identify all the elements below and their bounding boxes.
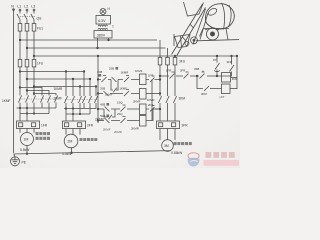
svg-text:T: T	[112, 25, 114, 29]
svg-text:2FR: 2FR	[180, 69, 185, 73]
svg-text:2FR: 2FR	[148, 103, 153, 107]
wire L3 top	[33, 11, 35, 14]
mixer jockey roller	[185, 42, 189, 46]
svg-text:3FR: 3FR	[227, 60, 232, 64]
watermark pink bar	[204, 160, 240, 166]
ground PE symbol	[14, 154, 15, 157]
PE bus wire	[14, 151, 171, 154]
svg-text:◇KT: ◇KT	[219, 95, 225, 99]
time relay KT NC contact	[214, 56, 220, 76]
fuse 3FU pole1	[159, 40, 161, 58]
fuse 1FU pole3	[32, 60, 36, 67]
interlock 1KMR NC	[124, 76, 129, 83]
coil 1KMF	[140, 74, 147, 85]
svg-text:6.3V: 6.3V	[98, 19, 106, 23]
transformer secondary box 6.3V	[102, 15, 104, 16]
junction bus2/L2	[26, 47, 28, 49]
wire L2 top	[26, 11, 28, 14]
fuse 1FU pole2	[25, 60, 29, 67]
terminal N	[13, 9, 15, 11]
bus line 1 (y40)	[20, 39, 157, 41]
mixer rear wheel	[207, 28, 219, 40]
wire transformer leg right	[108, 38, 110, 40]
svg-text:2KMR: 2KMR	[114, 130, 122, 134]
svg-text:QS: QS	[37, 17, 43, 21]
svg-text:2KMF: 2KMF	[103, 128, 111, 132]
fan bank1 phase3	[34, 94, 56, 96]
fuse 1FU pole1	[18, 60, 22, 67]
bus line 2 (y48)	[27, 47, 166, 49]
svg-text:3FR: 3FR	[182, 124, 189, 128]
mixer hoist track	[172, 4, 206, 56]
merge bus bank1 lower	[20, 103, 49, 114]
svg-text:3SB: 3SB	[100, 87, 105, 91]
svg-text:2M: 2M	[67, 140, 72, 144]
mixer chassis	[200, 28, 230, 40]
mixer front wheel	[191, 37, 198, 44]
mixer drum band	[222, 3, 232, 30]
thermal relay 3FR box	[157, 121, 180, 129]
fuse FU1 pole3	[32, 24, 36, 32]
switch QS pole 2	[24, 14, 27, 24]
svg-text:1KMF: 1KMF	[2, 99, 11, 103]
wire L1 top	[19, 11, 21, 14]
wire coil KT to right rail	[230, 88, 237, 90]
wire L2 mid	[26, 31, 28, 59]
svg-text:L1: L1	[17, 4, 21, 8]
wire L1 lower	[19, 67, 21, 96]
switch QS link dashed	[20, 15, 35, 17]
lamp H	[100, 9, 106, 15]
watermark logo red arc	[188, 153, 200, 167]
switch QS pole 1	[17, 14, 20, 24]
coil 3KM	[222, 73, 231, 83]
svg-text:2SQ: 2SQ	[117, 112, 123, 116]
mixer hopper	[174, 34, 190, 48]
wire transformer leg left	[97, 38, 99, 48]
thermal NC 1FR in series	[170, 72, 175, 79]
wire coil2 right	[146, 93, 160, 95]
contactor 1KMF contacts	[18, 96, 35, 103]
svg-text:1FU: 1FU	[37, 62, 44, 66]
button 1SB stop	[102, 76, 107, 83]
svg-text:1KMF: 1KMF	[135, 69, 143, 73]
control wire row4	[98, 120, 140, 122]
svg-text:L2: L2	[24, 4, 28, 8]
svg-text:1KMR: 1KMR	[121, 71, 129, 75]
pump control wire y76	[160, 75, 222, 77]
contactor 1KMR contacts	[40, 96, 57, 103]
right rail	[236, 56, 238, 89]
svg-text:4SB: 4SB	[100, 103, 105, 107]
wire 2KMF col2	[72, 79, 74, 96]
mixer illustration ground line	[196, 40, 239, 41]
svg-text:2KMF: 2KMF	[133, 100, 141, 104]
junction bus3/L3	[33, 55, 35, 57]
svg-text:5SB: 5SB	[100, 114, 105, 118]
svg-text:3FU: 3FU	[179, 60, 186, 64]
mixer drum opening	[207, 7, 218, 17]
transformer primary box 380V	[94, 31, 112, 39]
wire motor2M to PE bus	[71, 148, 73, 153]
contactor 3KM contacts	[158, 96, 176, 103]
junction rail2	[26, 78, 28, 80]
seal branch 2KMF	[104, 109, 115, 119]
bus line 3 (y56)	[34, 55, 237, 57]
svg-text:2KMF: 2KMF	[54, 97, 63, 101]
wire 1M phase drops	[20, 103, 34, 122]
limit switch 2SQ	[121, 117, 126, 124]
button 3SB stop pump	[200, 71, 205, 79]
fan bank1 phase1	[20, 88, 42, 96]
contactor 1KM link dashed	[19, 98, 57, 100]
control wire row1	[97, 79, 99, 81]
terminal L2	[26, 9, 28, 11]
distribution rail 3	[34, 86, 96, 88]
svg-text:1KMR: 1KMR	[54, 87, 64, 91]
svg-text:3KM: 3KM	[179, 97, 186, 101]
wire L2 lower	[26, 67, 28, 96]
motor 3M note (CJK blob)	[174, 142, 192, 145]
svg-text:1M: 1M	[23, 138, 28, 142]
svg-text:0.55kW: 0.55kW	[171, 151, 183, 155]
interlock chain vertical	[151, 80, 153, 121]
contactor 2KMR contacts	[82, 96, 97, 103]
wire 2KMF col1	[65, 72, 67, 97]
control wire row3	[98, 108, 140, 110]
button 3SB reverse	[104, 91, 109, 96]
distribution rail 2	[27, 78, 90, 80]
coil 2KMR	[140, 116, 147, 127]
svg-text:2KMR: 2KMR	[131, 127, 139, 131]
button 2SB start	[112, 77, 117, 82]
svg-text:5.5kW: 5.5kW	[20, 148, 30, 152]
coil KT	[222, 84, 231, 94]
seal branch 1KMF	[111, 80, 118, 93]
svg-text:1FR: 1FR	[166, 69, 171, 73]
fuse 3FU pole2	[167, 48, 169, 58]
wire motor1M to PE bus	[26, 146, 28, 154]
control wire row2	[98, 93, 140, 95]
watermark logo blue swirl	[188, 158, 200, 167]
wire coil4 right	[146, 109, 160, 121]
fuse FU1 pole1	[18, 24, 22, 32]
mixer drum	[205, 4, 234, 29]
svg-text:1FR: 1FR	[41, 124, 48, 128]
junction rail1	[19, 71, 21, 73]
svg-text:2FR: 2FR	[87, 124, 94, 128]
merge bus bank1 upper	[17, 103, 57, 109]
transformer T windings	[98, 25, 108, 26]
wire L3 mid	[33, 31, 35, 59]
motor 1M	[21, 133, 34, 146]
svg-text:1SQ: 1SQ	[117, 101, 123, 105]
motor 1M note line1 (CJK blob)	[36, 132, 51, 135]
thermal NC 3FR right	[222, 56, 234, 76]
wire 3FR to motor	[160, 129, 175, 141]
svg-text:1SB: 1SB	[97, 70, 102, 74]
merge bus bank2 upper	[64, 103, 96, 109]
svg-text:FU1: FU1	[37, 27, 43, 31]
fuse FU1 pole2	[25, 24, 29, 32]
svg-text:1FR: 1FR	[148, 74, 153, 78]
wire 2M phase drops	[66, 103, 80, 121]
fuse 3FU pole3	[174, 56, 176, 58]
wires pump branch verticals	[160, 65, 175, 96]
thermal NC 2FR in series	[184, 72, 189, 79]
coil 1KMR	[140, 89, 147, 100]
svg-text:380V: 380V	[97, 33, 106, 37]
wire L1 mid	[19, 31, 21, 59]
wire 1FR to motor	[20, 129, 34, 133]
junction rail3	[33, 86, 35, 88]
wire L3 lower	[33, 67, 35, 96]
svg-text:PE: PE	[22, 161, 27, 165]
watermark text (CJK blob)	[206, 152, 235, 158]
wire coil3 right + 2FR NC	[146, 106, 160, 112]
motor 1M note line2 (CJK blob)	[36, 137, 51, 140]
merge bus bank2 lower	[66, 103, 90, 114]
coil 2KMF	[140, 104, 147, 115]
mixer A-frame	[193, 9, 208, 45]
fan bank1 phase2	[27, 91, 49, 96]
junction bus1/L1	[19, 39, 21, 41]
button 4SB up	[105, 107, 110, 112]
motor 3M	[162, 140, 174, 152]
wires pump branch lower	[160, 103, 175, 121]
svg-text:L3: L3	[31, 4, 35, 8]
distribution rail 1	[20, 71, 84, 73]
seal branch 3KM	[197, 76, 222, 91]
mixer top funnel	[184, 2, 204, 16]
terminal L3	[33, 9, 35, 11]
svg-text:3SB: 3SB	[194, 67, 199, 71]
switch QS pole 3	[31, 14, 34, 24]
terminal L1	[19, 9, 21, 11]
svg-text:KT: KT	[213, 58, 217, 62]
svg-text:1KMR: 1KMR	[147, 98, 155, 102]
wire 2FR to motor	[66, 129, 80, 135]
wire coil 3KM to right rail	[231, 77, 238, 79]
wire N vertical	[13, 9, 15, 153]
svg-text:2SB: 2SB	[109, 67, 114, 71]
thermal relay 1FR box	[17, 121, 40, 129]
wire 2KMR col2	[89, 79, 91, 96]
motor 2M note (CJK blob)	[80, 138, 98, 141]
wire 2KMR col1	[83, 72, 85, 97]
contactor 2KM link dashed	[65, 99, 97, 101]
button 5SB down	[105, 118, 110, 123]
thermal relay 2FR box	[63, 121, 86, 129]
control rail left	[97, 56, 99, 123]
svg-text:3M: 3M	[164, 144, 169, 148]
svg-text:3KM: 3KM	[201, 92, 207, 96]
motor 2M	[64, 134, 78, 148]
wire coil1 right + 1FR NC	[146, 76, 160, 82]
contactor 2KMF contacts	[64, 96, 81, 103]
wire 2KMF col3	[79, 87, 81, 97]
svg-text:N: N	[11, 4, 14, 8]
limit switch 1SQ	[121, 105, 126, 112]
wire 2KMR col3	[95, 87, 97, 97]
